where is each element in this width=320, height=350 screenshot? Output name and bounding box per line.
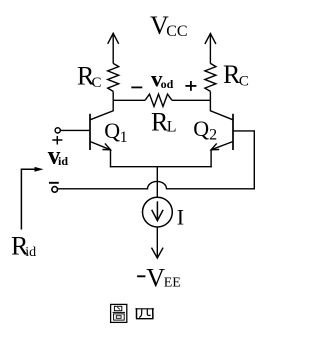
wire emitter rail [110, 166, 212, 168]
label vod [151, 66, 174, 91]
minus sign vod [131, 86, 142, 88]
svg-text:C: C [239, 73, 249, 89]
label vid [48, 143, 69, 170]
svg-text:L: L [167, 119, 177, 136]
svg-text:CC: CC [166, 23, 187, 40]
label Q1 [104, 118, 127, 146]
input arrow Rid [21, 167, 43, 230]
svg-text:C: C [92, 75, 102, 91]
plus sign input [52, 136, 62, 145]
label RL [151, 108, 177, 137]
svg-text:Q: Q [193, 116, 209, 141]
terminal plus circle [55, 128, 60, 133]
wire Q1 emitter down [110, 150, 112, 168]
label RC left [77, 61, 102, 91]
wire minus line with hop [58, 181, 255, 188]
wire center tap [156, 167, 158, 198]
wire Q2 emitter down [210, 150, 212, 168]
svg-text:I: I [177, 205, 184, 230]
svg-text:V: V [146, 263, 165, 292]
transistor Q2 [210, 100, 233, 150]
svg-text:Q: Q [104, 118, 120, 143]
minus sign input [49, 182, 59, 184]
svg-text:od: od [161, 77, 174, 91]
svg-text:2: 2 [209, 127, 217, 144]
current source I [143, 197, 173, 227]
transistor Q1 [90, 100, 113, 150]
caption char tu (figure) [111, 304, 127, 322]
wire base Q1 [60, 129, 90, 131]
caption char four [135, 308, 154, 319]
svg-text:1: 1 [120, 129, 128, 146]
resistor RL [145, 94, 172, 106]
svg-text:id: id [58, 154, 68, 168]
label Q2 [193, 116, 217, 144]
label Rid [11, 232, 36, 261]
wire left VCC arrow [108, 33, 119, 63]
label -VEE [137, 263, 181, 292]
wire RC right bottom [209, 91, 211, 100]
svg-text:id: id [25, 245, 36, 260]
resistor RC left [108, 63, 119, 91]
wire RL right [172, 99, 210, 101]
wire right VCC arrow [205, 34, 216, 64]
wire Q2 base right [233, 131, 254, 190]
plus sign vod [185, 81, 196, 91]
wire VEE arrow [152, 227, 164, 258]
label RC right [223, 60, 249, 89]
wire RL left [113, 99, 145, 101]
terminal minus circle [52, 187, 58, 193]
svg-text:EE: EE [164, 276, 181, 291]
wire RC left bottom [112, 91, 114, 100]
resistor RC right [205, 63, 216, 91]
label VCC [150, 11, 188, 40]
